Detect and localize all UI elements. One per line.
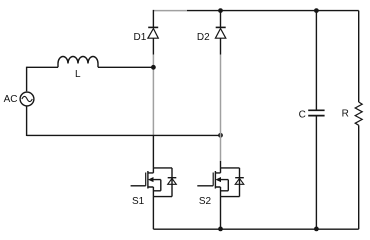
wire: S1 drain vertical <box>152 136 154 168</box>
node A junction dot <box>151 65 156 70</box>
svg-text:L: L <box>75 69 81 80</box>
S2 body diode <box>235 177 244 179</box>
svg-text:D2: D2 <box>197 32 210 43</box>
capacitor C <box>308 11 324 230</box>
svg-text:S1: S1 <box>132 196 145 207</box>
resistor R <box>355 11 362 230</box>
wire: S2 drain vertical <box>220 161 222 168</box>
wire: S2 source outlet <box>220 197 222 230</box>
svg-text:C: C <box>299 109 306 120</box>
transistor S1 (MOSFET with body diode) <box>131 136 177 230</box>
node: S2 source junction dot <box>218 227 223 232</box>
wire: AC top lead <box>26 67 28 92</box>
svg-text:D1: D1 <box>134 32 147 43</box>
wire: bottom rail <box>153 228 358 230</box>
S2 drain stub <box>216 168 221 173</box>
svg-text:S2: S2 <box>199 196 212 207</box>
wire: S2 body-diode branch bottom <box>221 196 240 198</box>
wire: node A to inductor <box>98 66 153 68</box>
wire: body-diode branch bottom <box>153 196 172 198</box>
S2 gate bar <box>212 173 214 186</box>
wire: S1 drain to body-diode branch top <box>153 167 172 169</box>
AC source <box>20 92 34 106</box>
wire: S2 body-diode branch right vertical <box>239 168 241 197</box>
S2 source stub <box>215 187 220 197</box>
S2 gate lead <box>197 185 213 187</box>
S1 channel bar <box>147 171 149 189</box>
wire: top rail black segment (to R column) <box>187 10 359 12</box>
S1 gate lead <box>131 185 146 187</box>
wire: inductor to AC top corner <box>27 66 58 68</box>
wire: gray vertical D2 anode through node B to S2 drain <box>220 55 222 162</box>
S1 drain stub <box>148 168 153 173</box>
S1 gate bar <box>145 173 147 186</box>
S2 body stub with arrow <box>216 178 221 182</box>
node: D2 top junction dot <box>218 8 223 13</box>
svg-text:AC: AC <box>4 94 18 105</box>
node: C top junction dot <box>314 8 319 13</box>
wire: S2 drain to body-diode branch top <box>221 167 240 169</box>
S2 channel bar <box>214 171 216 189</box>
S1 body stub with arrow <box>149 178 154 182</box>
S1 source stub <box>148 187 154 197</box>
S1 body diode <box>168 177 177 179</box>
inductor L <box>58 57 98 68</box>
transistor S2 (MOSFET with body diode) <box>197 161 244 229</box>
diode D1 <box>148 10 158 55</box>
wire: gray vertical D1 anode to S1 drain (node A) <box>152 55 154 136</box>
wire: mid rail AC return to node B <box>27 134 221 136</box>
wire: AC bottom lead <box>26 106 28 136</box>
wire: S1 source outlet <box>152 197 154 230</box>
wire: body-diode branch right vertical <box>171 168 173 197</box>
node B junction dot <box>218 133 223 138</box>
diode D2 <box>215 11 225 55</box>
wire: top rail gray segment (D1 cathode to mid) <box>153 10 187 12</box>
svg-text:R: R <box>342 109 349 120</box>
node: C bottom junction dot <box>314 227 319 232</box>
